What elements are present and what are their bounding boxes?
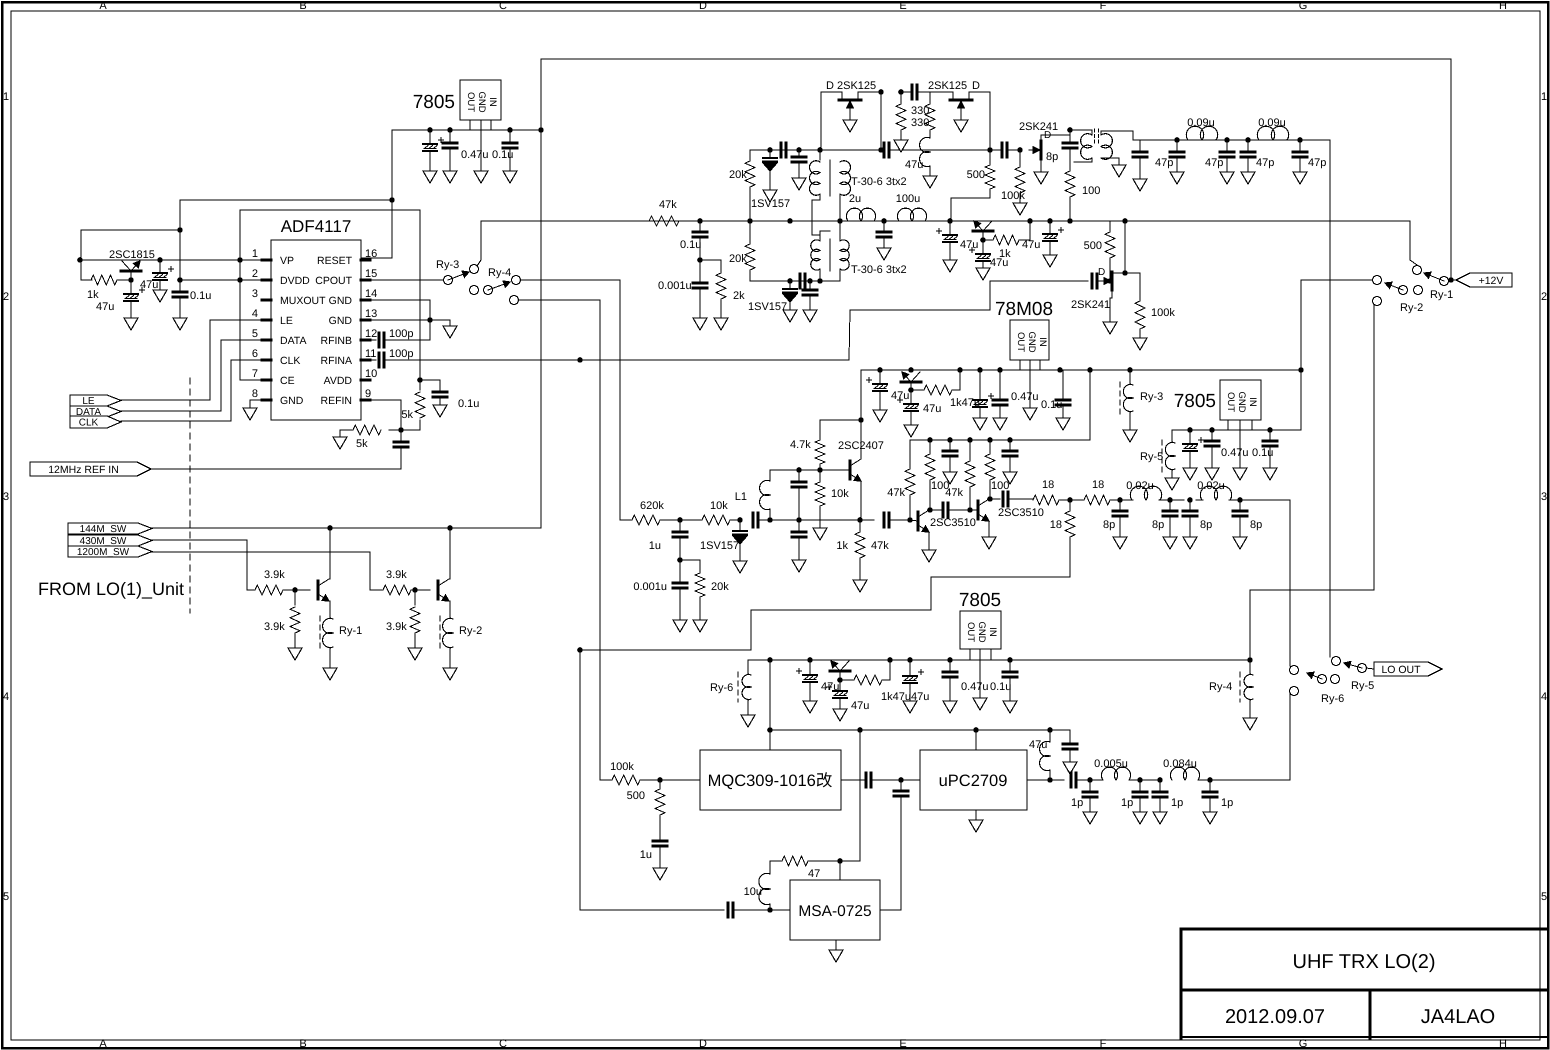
capacitor C2 — [443, 130, 457, 183]
IC U7 uPC2709 — [920, 750, 1027, 810]
resistor R19 100k — [1135, 301, 1175, 338]
transistor Q4 2SK125 — [826, 80, 876, 112]
svg-text:0.02u: 0.02u — [1126, 480, 1154, 492]
transistor Q11 2SC3510 — [910, 510, 976, 532]
svg-text:1p: 1p — [1071, 797, 1083, 809]
svg-text:E: E — [899, 0, 906, 12]
wire Ry-4 throw2 out — [518, 300, 600, 780]
wire filter row1 — [1140, 137, 1330, 657]
svg-text:MUXOUT: MUXOUT — [280, 295, 326, 307]
inductor L11 0.005u — [1094, 758, 1130, 780]
svg-text:47p: 47p — [1155, 157, 1173, 169]
svg-text:1p: 1p — [1121, 797, 1133, 809]
inductor L3 2u — [846, 193, 875, 221]
switch Ry-4 — [470, 267, 521, 295]
resistor R23 10k — [680, 500, 740, 525]
capacitor C11 0.1u — [680, 221, 707, 263]
svg-text:78M08: 78M08 — [995, 299, 1053, 320]
ground R25 — [813, 528, 827, 540]
wire refin node — [361, 400, 420, 433]
wire osc1 tune row — [750, 147, 802, 160]
relay coil Ry-5 — [1140, 430, 1175, 478]
svg-text:100: 100 — [991, 480, 1009, 492]
svg-text:F: F — [1100, 1038, 1107, 1050]
svg-text:2SK241: 2SK241 — [1071, 299, 1110, 311]
wire T2 tops — [820, 221, 840, 241]
svg-text:100: 100 — [1082, 185, 1100, 197]
wire 8V riser — [1298, 280, 1304, 373]
resistor R18 500 — [1084, 221, 1115, 281]
capacitor C21 47u — [970, 240, 1009, 280]
capacitor C44 — [860, 513, 913, 527]
svg-text:4: 4 — [3, 691, 9, 703]
ground R22 — [693, 620, 707, 632]
svg-text:7805: 7805 — [1174, 391, 1216, 412]
svg-text:500: 500 — [1084, 240, 1102, 252]
svg-text:GND: GND — [1236, 391, 1247, 412]
capacitor C3 0.1u — [503, 130, 517, 183]
resistor R3 5k — [340, 425, 401, 450]
svg-text:Ry-3: Ry-3 — [436, 259, 459, 271]
resistor R29 47k — [945, 440, 975, 510]
ground Q11 emitter — [922, 532, 936, 562]
capacitor C57 0.1u — [990, 660, 1017, 713]
resistor R20 1k — [911, 370, 960, 395]
ground R19 — [1133, 338, 1147, 350]
wire Ry-2 lower — [1250, 297, 1382, 661]
wire Q10 collector — [860, 420, 862, 459]
ground Q5 gate — [954, 112, 968, 132]
svg-text:0.47u: 0.47u — [961, 681, 989, 693]
svg-text:0.1u: 0.1u — [1252, 447, 1273, 459]
resistor R8 47k — [649, 199, 679, 226]
svg-text:100k: 100k — [610, 761, 634, 773]
capacitor C33 47u — [973, 370, 994, 430]
svg-text:1k: 1k — [836, 540, 848, 552]
svg-text:47: 47 — [808, 868, 820, 880]
svg-text:UHF TRX LO(2): UHF TRX LO(2) — [1293, 951, 1436, 973]
wire DATA — [121, 340, 262, 411]
ground Ry-3 — [1123, 430, 1137, 442]
capacitor C6 0.1u — [173, 290, 211, 330]
transformer T1 T-30-6 3tx2 — [809, 160, 906, 196]
IC U6 MQC309-1016 — [700, 750, 841, 810]
transistor Q6 — [973, 221, 993, 240]
wire msa out — [880, 798, 901, 910]
capacitor C42 — [792, 470, 806, 523]
ground R11 — [894, 140, 908, 152]
svg-text:uPC2709: uPC2709 — [939, 772, 1008, 790]
svg-text:H: H — [1499, 0, 1507, 12]
svg-text:Ry-2: Ry-2 — [1400, 302, 1423, 314]
flag +12V — [1456, 273, 1512, 287]
svg-text:1200M_SW: 1200M_SW — [77, 547, 130, 558]
capacitor C50 8p — [1152, 497, 1177, 549]
wire 144M — [152, 130, 541, 531]
svg-text:18: 18 — [1050, 519, 1062, 531]
wire RESET pin16 riser — [361, 130, 395, 258]
svg-text:C: C — [499, 0, 507, 12]
svg-text:D: D — [972, 80, 980, 92]
label 0.47u — [461, 149, 489, 161]
svg-text:330: 330 — [911, 117, 929, 129]
svg-text:620k: 620k — [640, 500, 664, 512]
svg-text:18: 18 — [1042, 479, 1054, 491]
resistor R30 100 — [985, 440, 1009, 499]
wire rfina tap — [384, 281, 1088, 363]
IC U8 MSA-0725 — [790, 880, 880, 940]
wire rail to collector — [820, 370, 864, 428]
svg-text:100k: 100k — [1001, 190, 1025, 202]
svg-text:8: 8 — [252, 388, 258, 400]
svg-text:OUT: OUT — [1225, 392, 1236, 412]
svg-text:47u: 47u — [851, 700, 869, 712]
title text UHF TRX LO(2) — [1293, 951, 1436, 973]
title block frame — [1181, 929, 1548, 1038]
wire collector loop — [81, 230, 180, 280]
capacitor C15 — [884, 143, 905, 157]
svg-text:18: 18 — [1092, 479, 1104, 491]
switch Ry-5 out — [1332, 657, 1375, 693]
capacitor C30 — [1092, 267, 1105, 288]
capacitor C62 — [1050, 773, 1090, 787]
ground Ry-2 — [443, 668, 457, 680]
inductor L5 0.09u — [1186, 117, 1217, 140]
capacitor C29 47p — [1293, 140, 1326, 184]
wire 2SK125a source — [820, 89, 884, 153]
capacitor C24 8p — [1063, 143, 1077, 160]
ground Ry-1 — [323, 668, 337, 680]
capacitor C34 0.47u — [993, 370, 1039, 430]
varactor D2 1SV157 — [748, 281, 797, 313]
svg-text:4: 4 — [252, 308, 258, 320]
capacitor C53 47u — [797, 660, 840, 713]
svg-text:100u: 100u — [896, 193, 920, 205]
svg-text:3: 3 — [3, 491, 9, 503]
svg-text:CLK: CLK — [280, 355, 300, 367]
capacitor C36 47u — [1183, 430, 1204, 480]
wire filter2 out — [1120, 500, 1290, 666]
switch Ry-3 — [436, 259, 479, 285]
capacitor C23 — [990, 143, 1023, 157]
svg-text:10k: 10k — [831, 488, 849, 500]
svg-text:MSA-0725: MSA-0725 — [798, 903, 871, 920]
svg-text:Ry-5: Ry-5 — [1140, 451, 1163, 463]
capacitor C48 — [1003, 492, 1033, 506]
capacitor C10 — [394, 430, 408, 469]
svg-text:+12V: +12V — [1479, 275, 1504, 287]
svg-text:500: 500 — [627, 790, 645, 802]
capacitor C12 0.001u — [658, 260, 707, 318]
capacitor C56 0.47u — [943, 660, 989, 713]
svg-text:1u: 1u — [649, 540, 661, 552]
wire drain node — [1067, 127, 1073, 143]
capacitor C37 0.47u — [1205, 430, 1249, 480]
inductor L1 — [735, 470, 799, 520]
svg-text:14: 14 — [365, 288, 377, 300]
capacitor C22 47u — [1022, 221, 1064, 267]
svg-text:IN: IN — [487, 97, 498, 107]
relay coil Ry-1 — [320, 601, 362, 668]
capacitor C40 0.001u — [633, 560, 687, 620]
capacitor C1 47u — [423, 130, 444, 183]
ground L2 — [923, 176, 937, 188]
resistor R32 18 — [1067, 479, 1120, 505]
svg-text:47u: 47u — [990, 257, 1008, 269]
transistor Q1 2SC1815 — [109, 249, 155, 280]
svg-text:GND: GND — [1026, 331, 1037, 352]
svg-text:0.1u: 0.1u — [990, 681, 1011, 693]
svg-text:47k: 47k — [659, 199, 677, 211]
svg-text:GND: GND — [329, 315, 353, 327]
wire Ry-3 riser — [477, 221, 481, 266]
svg-text:47u: 47u — [140, 279, 158, 291]
varactor D1 1SV157 — [751, 150, 790, 210]
wire vp supply top — [177, 200, 392, 292]
flag 12MHz REF IN — [30, 462, 151, 476]
capacitor C32 47u — [898, 390, 942, 437]
ground D3 — [733, 561, 747, 573]
svg-text:D: D — [699, 1038, 707, 1050]
wire 1200M — [152, 552, 383, 590]
transistor Q13 — [830, 661, 850, 683]
transformer T3 — [1070, 129, 1140, 162]
svg-text:10: 10 — [365, 368, 377, 380]
capacitor C49 8p — [1103, 497, 1127, 549]
ground pin8 — [243, 408, 257, 420]
svg-text:JA4LAO: JA4LAO — [1421, 1006, 1495, 1028]
svg-text:G: G — [1299, 0, 1308, 12]
transistor Q9 — [901, 372, 921, 393]
resistor R26 1k 47k — [836, 520, 889, 580]
capacitor C28 47p — [1241, 140, 1274, 184]
svg-text:15: 15 — [365, 268, 377, 280]
svg-text:IN: IN — [987, 627, 998, 637]
svg-text:C: C — [499, 1038, 507, 1050]
ground 7805c gnd — [973, 649, 987, 710]
capacitor C46 — [943, 440, 957, 484]
wire Q10 emitter — [860, 481, 862, 520]
label 8p — [1046, 151, 1058, 163]
wire Q2 collector — [329, 528, 331, 579]
flag DATA — [70, 406, 121, 418]
svg-text:1k: 1k — [87, 289, 99, 301]
svg-text:T-30-6 3tx2: T-30-6 3tx2 — [851, 176, 907, 188]
svg-text:0.47u: 0.47u — [461, 149, 489, 161]
varactor D3 1SV157 — [700, 517, 747, 561]
svg-text:ADF4117: ADF4117 — [281, 217, 352, 236]
wire 18 tap — [577, 577, 1070, 653]
svg-text:1p: 1p — [1171, 797, 1183, 809]
resistor R2 5k — [401, 380, 425, 430]
svg-text:20k: 20k — [729, 253, 747, 265]
ground D2 — [783, 310, 797, 322]
ground 78M08 gnd — [1023, 360, 1037, 420]
resistor R27 47k — [887, 440, 915, 520]
ground C12 — [693, 318, 707, 330]
resistor R24 4.7k — [790, 428, 825, 470]
wire LE — [121, 320, 262, 400]
svg-text:A: A — [99, 1038, 107, 1050]
ground Q7 source — [1034, 159, 1048, 184]
flag 1200M_SW — [68, 546, 152, 558]
svg-text:12: 12 — [365, 328, 377, 340]
svg-text:LO OUT: LO OUT — [1381, 664, 1421, 676]
svg-text:E: E — [899, 1038, 906, 1050]
wire Ry-1 riser — [1410, 221, 1417, 265]
ground R9 — [714, 318, 728, 330]
resistor R7 3.9k — [386, 590, 420, 648]
svg-text:1: 1 — [1541, 91, 1547, 103]
label 1k47u b — [881, 691, 911, 703]
wire 430M — [152, 540, 255, 590]
svg-text:G: G — [1299, 1038, 1308, 1050]
resistor R12 330 — [911, 92, 935, 138]
svg-text:0.084u: 0.084u — [1163, 758, 1197, 770]
svg-text:9: 9 — [365, 388, 371, 400]
svg-text:2SK241: 2SK241 — [1019, 121, 1058, 133]
inductor L7 0.02u — [1126, 480, 1161, 500]
resistor R15 500 — [951, 150, 995, 221]
svg-text:OUT: OUT — [965, 622, 976, 642]
svg-text:D 2SK125: D 2SK125 — [826, 80, 876, 92]
capacitor C35 0.1u — [1041, 370, 1070, 430]
svg-text:RESET: RESET — [317, 255, 353, 267]
svg-text:2SC1815: 2SC1815 — [109, 249, 155, 261]
resistor R5 3.9k — [264, 590, 300, 648]
wire mqc in — [657, 777, 700, 783]
wire Q12 collector — [987, 496, 1000, 502]
capacitor C14 — [792, 150, 806, 190]
svg-text:1: 1 — [3, 91, 9, 103]
svg-text:AVDD: AVDD — [324, 375, 353, 387]
ground T3 — [1112, 165, 1126, 177]
inductor L9 10u — [744, 861, 781, 910]
wire rail y660 — [748, 649, 1250, 663]
transistor Q2 — [318, 579, 330, 601]
capacitor C27 47p — [1205, 140, 1234, 184]
svg-text:F: F — [1100, 0, 1107, 12]
resistor R11 330 — [896, 92, 929, 140]
svg-text:T-30-6 3tx2: T-30-6 3tx2 — [851, 264, 907, 276]
svg-text:5k: 5k — [401, 409, 413, 421]
transistor Q8 2SK241 — [1071, 272, 1113, 311]
transformer T2 T-30-6 3tx2 — [811, 239, 907, 276]
svg-text:47u: 47u — [1022, 239, 1040, 251]
svg-text:4: 4 — [1541, 691, 1547, 703]
svg-text:8p: 8p — [1103, 519, 1115, 531]
svg-text:47u: 47u — [96, 301, 114, 313]
capacitor C61 — [1050, 730, 1077, 774]
ground R5 — [288, 648, 302, 660]
switch Ry-4 throw2 — [510, 296, 519, 305]
svg-text:1SV157: 1SV157 — [748, 301, 787, 313]
capacitor C64 1p — [1121, 780, 1147, 824]
wire dvdd stub — [237, 210, 262, 380]
ground upc — [969, 810, 983, 832]
capacitor C65 1p — [1153, 780, 1183, 824]
resistor R4 3.9k — [255, 569, 310, 595]
flag LE — [70, 395, 121, 407]
svg-text:2k: 2k — [733, 290, 745, 302]
svg-text:47p: 47p — [1308, 157, 1326, 169]
ground Q12 emitter — [982, 521, 996, 549]
inductor L6 0.09u — [1257, 117, 1288, 140]
wire rail 8V y370 — [861, 360, 1301, 373]
capacitor C7 100p — [361, 328, 430, 347]
resistor R14 1k — [980, 221, 1030, 260]
svg-text:OUT: OUT — [1015, 332, 1026, 352]
svg-text:47p: 47p — [1256, 157, 1274, 169]
regulator U3 78M08 — [995, 299, 1053, 360]
svg-text:Ry-1: Ry-1 — [1430, 289, 1453, 301]
relay coil Ry-3 — [1120, 370, 1163, 430]
ground 5k — [333, 437, 347, 449]
wire avdd supply — [240, 210, 420, 380]
wire osc2 sig row — [770, 517, 863, 523]
svg-text:0.001u: 0.001u — [658, 280, 692, 292]
ground adf gnd — [443, 326, 457, 338]
wire pin8 gnd — [250, 400, 262, 408]
capacitor C66 1p — [1203, 780, 1233, 824]
text FROM LO(1)_Unit — [38, 579, 184, 599]
svg-text:2u: 2u — [849, 193, 861, 205]
capacitor C47 — [1003, 440, 1017, 484]
svg-text:0.001u: 0.001u — [633, 581, 667, 593]
resistor R25 10k — [815, 470, 849, 528]
svg-text:GND: GND — [976, 621, 987, 642]
resistor R6 3.9k — [383, 569, 430, 595]
capacitor C25 — [1133, 140, 1147, 191]
svg-text:IN: IN — [1037, 337, 1048, 347]
wire T3 out — [1101, 158, 1119, 165]
svg-text:A: A — [99, 0, 107, 12]
resistor R1 1k — [81, 275, 134, 301]
wire 2SK125a drain — [821, 92, 842, 150]
wire pin1 rail — [77, 257, 262, 263]
svg-text:D: D — [699, 0, 707, 12]
svg-text:47u: 47u — [960, 239, 978, 251]
wire Q5 leads — [930, 92, 990, 150]
transistor Q5 2SK125 — [928, 80, 980, 112]
ground R16 — [1013, 203, 1027, 215]
wire rail y440 — [910, 370, 1090, 443]
capacitor C5 47u — [140, 260, 174, 302]
label 1k47u — [950, 397, 980, 409]
svg-text:8p: 8p — [1152, 519, 1164, 531]
svg-text:0.1u: 0.1u — [1041, 399, 1062, 411]
regulator U2 7805 — [413, 80, 501, 120]
capacitor C60 — [728, 903, 790, 917]
relay coil Ry-2 — [440, 601, 482, 668]
svg-text:12MHz REF IN: 12MHz REF IN — [48, 464, 119, 476]
svg-text:DVDD: DVDD — [280, 275, 310, 287]
wire +12V top rail — [541, 59, 1451, 280]
svg-text:20k: 20k — [711, 581, 729, 593]
svg-text:B: B — [299, 1038, 306, 1050]
capacitor C8 100p — [361, 348, 413, 367]
capacitor C39 1u — [649, 517, 687, 563]
svg-text:D: D — [1098, 267, 1105, 278]
svg-text:L1: L1 — [735, 491, 747, 503]
transistor Q10 2SC2407 — [838, 440, 884, 481]
svg-text:2012.09.07: 2012.09.07 — [1225, 1006, 1325, 1028]
svg-text:6: 6 — [252, 348, 258, 360]
wire osc2 base row — [796, 467, 850, 473]
wire Q3 collector — [449, 528, 451, 579]
wire avdd node — [417, 377, 440, 383]
wire Q8 drain — [1112, 221, 1140, 300]
